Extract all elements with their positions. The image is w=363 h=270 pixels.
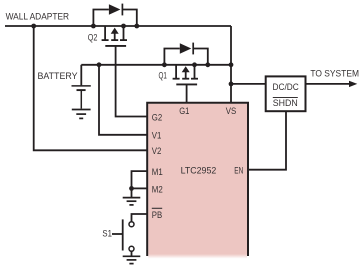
ground (M1/M2) xyxy=(123,198,141,205)
IC U1 LTC2952 body fill xyxy=(148,104,247,259)
wire wall adapter branch down to V2 xyxy=(34,26,148,150)
battery B1 xyxy=(72,86,91,109)
wire Q1 gate to G1 pin xyxy=(186,84,188,103)
wire switch to ground xyxy=(131,251,133,255)
svg-text:G2: G2 xyxy=(152,112,162,122)
node rail junction xyxy=(31,24,36,29)
svg-text:EN: EN xyxy=(234,166,243,176)
node Q2 diode cathode xyxy=(134,24,139,29)
svg-text:BATTERY: BATTERY xyxy=(38,70,79,81)
svg-text:SHDN: SHDN xyxy=(273,98,298,108)
svg-text:G1: G1 xyxy=(179,106,189,116)
wire DC/DC output to system xyxy=(306,83,351,85)
IC U1 LTC2952 border xyxy=(147,103,248,256)
switch S1 pushbutton xyxy=(112,219,134,251)
wire SHDN to EN xyxy=(249,111,286,170)
svg-text:WALL ADAPTER: WALL ADAPTER xyxy=(6,10,70,21)
svg-text:S1: S1 xyxy=(102,229,112,239)
ground (S1) xyxy=(123,256,141,263)
diode D2 (Q2 body diode) xyxy=(93,4,136,26)
wire wall adapter rail xyxy=(5,25,231,27)
wire Q2 gate to G2 pin xyxy=(116,46,148,117)
svg-text:VS: VS xyxy=(226,106,237,116)
svg-text:Q2: Q2 xyxy=(88,32,98,42)
wire M1 pin xyxy=(132,171,148,188)
svg-text:V1: V1 xyxy=(152,131,162,141)
ground (battery) xyxy=(72,110,91,119)
svg-text:TO SYSTEM: TO SYSTEM xyxy=(310,68,359,79)
node Q2 drain xyxy=(121,24,126,29)
svg-text:DC/DC: DC/DC xyxy=(273,82,300,92)
svg-text:M2: M2 xyxy=(152,184,163,194)
wire battery rail to Q1 and VS xyxy=(81,64,231,66)
svg-text:V2: V2 xyxy=(152,146,162,156)
transistor Q1 (PMOS pass FET) xyxy=(173,65,198,85)
diode D1 (Q1 body diode) xyxy=(164,43,207,65)
wire M2 pin xyxy=(132,187,148,189)
svg-text:Q1: Q1 xyxy=(159,71,167,81)
svg-text:M1: M1 xyxy=(152,167,163,177)
wire battery stem xyxy=(80,65,82,86)
node Q1 drain xyxy=(192,62,197,67)
wire VS junction to DC/DC input xyxy=(231,83,266,85)
arrowhead to system xyxy=(349,81,357,87)
node Q2 source/diode anode xyxy=(91,24,96,29)
svg-text:LTC2952: LTC2952 xyxy=(181,166,217,176)
wire M junction to ground xyxy=(131,188,133,197)
node Q1 source/diode anode xyxy=(162,62,167,67)
transistor Q2 (PMOS pass FET) xyxy=(102,26,127,46)
node VS vertical / DC-DC input xyxy=(229,82,234,87)
node VS vertical / Q1 output xyxy=(229,62,234,67)
node battery junction xyxy=(97,62,102,67)
svg-text:PB: PB xyxy=(152,210,162,220)
node M1/M2 junction xyxy=(129,186,134,191)
wire battery junction down to V1 xyxy=(99,65,148,135)
wire VS lead from rail corner down to VS pin xyxy=(230,26,232,103)
node Q1 diode cathode xyxy=(205,62,210,67)
wire PB pin to switch xyxy=(132,214,148,222)
DC/DC converter block xyxy=(266,76,306,111)
